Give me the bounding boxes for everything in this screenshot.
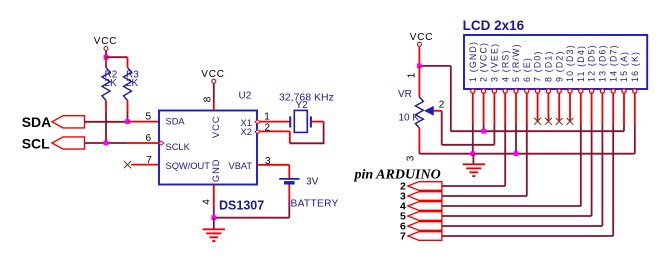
- wire wiper stub: [434, 110, 442, 112]
- wire wiper to pin3 (VEE): [442, 144, 495, 146]
- terminal ARDUINO pin 6 tag: [408, 222, 442, 231]
- terminal ARDUINO pin 7 tag: [408, 232, 442, 241]
- terminal ARDUINO pin 4 tag: [408, 202, 442, 211]
- node ground junction: [211, 215, 216, 220]
- svg-text:10 (D3): 10 (D3): [565, 44, 575, 82]
- svg-text:X2: X2: [241, 127, 252, 137]
- wire SDA to pin 5: [128, 121, 161, 123]
- no-connect X pin 9: [556, 118, 563, 125]
- svg-text:15 (A): 15 (A): [619, 51, 629, 82]
- wire to VR top: [418, 66, 420, 97]
- LCD pin 2 terminal: [482, 89, 486, 93]
- svg-text:9 (D2): 9 (D2): [554, 50, 564, 82]
- svg-text:SDA: SDA: [166, 117, 186, 127]
- LCD pin 7 terminal: [536, 89, 540, 93]
- wire X2 stub: [257, 130, 290, 132]
- wire VCC junction to rail: [419, 65, 450, 67]
- no-connect X on SQW/OUT: [124, 161, 131, 168]
- wire wiper down: [441, 111, 443, 145]
- node SDA/R3 junction: [125, 119, 130, 124]
- wire LCD pin 6 net: to tag 3: [526, 93, 528, 124]
- svg-text:1: 1: [407, 72, 418, 78]
- pin marker pin6: [159, 141, 164, 145]
- wire battery to ground node: [214, 217, 289, 219]
- wire GND distribution line: [419, 153, 634, 155]
- svg-text:SDA: SDA: [22, 114, 52, 130]
- wire pin 7 stub: [131, 164, 160, 166]
- wire LCD pin 3 net: to wiper line: [493, 93, 495, 124]
- wire LCD pin 10 stub (n/c): [569, 93, 571, 121]
- LCD pin 1 terminal: [471, 89, 475, 93]
- svg-text:10 K: 10 K: [399, 112, 420, 123]
- battery 3V: [288, 165, 290, 178]
- svg-text:1 (GND): 1 (GND): [468, 41, 478, 82]
- crystal left plate: [289, 116, 291, 127]
- svg-text:VR: VR: [398, 89, 412, 100]
- svg-text:SQW/OUT: SQW/OUT: [166, 161, 211, 171]
- LCD pin 5 terminal: [514, 89, 518, 93]
- svg-text:4: 4: [202, 199, 213, 205]
- wire pin 4 to ground: [213, 185, 215, 208]
- svg-text:3 (VEE): 3 (VEE): [490, 43, 500, 82]
- svg-text:1: 1: [264, 111, 270, 122]
- wire loop to X2: [289, 131, 291, 143]
- resistor R3: [127, 57, 129, 67]
- battery long plate: [279, 178, 299, 180]
- svg-text:Y2: Y2: [296, 100, 309, 111]
- svg-text:3: 3: [406, 155, 417, 161]
- resistor R2: [105, 57, 107, 68]
- IC U2 DS1307 body: [159, 111, 257, 185]
- svg-text:2K: 2K: [105, 78, 118, 89]
- svg-text:SCL: SCL: [22, 135, 50, 151]
- battery short plate: [284, 181, 295, 184]
- wire SCL to pin 6: [128, 142, 160, 144]
- wire LCD pin 4 net: to tag 2: [504, 93, 506, 124]
- svg-text:5 (R/W): 5 (R/W): [511, 43, 521, 82]
- svg-text:VCC: VCC: [201, 69, 225, 80]
- svg-text:2: 2: [439, 99, 445, 110]
- svg-text:SCLK: SCLK: [166, 142, 191, 152]
- wire VBAT to battery: [257, 164, 289, 166]
- svg-text:BATTERY: BATTERY: [291, 198, 339, 209]
- wire LCD pin 12 net: to tag 5: [591, 93, 593, 124]
- svg-text:LCD 2x16: LCD 2x16: [463, 18, 525, 33]
- ground (left): [203, 228, 225, 230]
- wire LCD pin 1 net: to GND line: [472, 93, 474, 124]
- LCD pin 12 terminal: [590, 89, 594, 93]
- no-connect X pin 8: [545, 118, 552, 125]
- LCD pin 8 terminal: [546, 89, 550, 93]
- LCD pin 11 terminal: [579, 89, 583, 93]
- no-connect X pin 7: [534, 118, 541, 125]
- wire tag 7 to LCD: [442, 235, 613, 237]
- node pin2/VCC junction: [481, 129, 486, 134]
- svg-text:U2: U2: [239, 91, 252, 102]
- terminal ARDUINO pin 2 tag: [408, 182, 442, 191]
- wire VCC distribution line: [451, 130, 624, 132]
- wire to ground symbol: [213, 218, 215, 230]
- svg-text:8: 8: [202, 96, 213, 102]
- wire LCD pin 9 stub (n/c): [558, 93, 560, 121]
- wire LCD pin 16 net: to GND line: [634, 93, 636, 124]
- wire VR bottom: [418, 128, 420, 152]
- svg-text:12 (D5): 12 (D5): [587, 44, 597, 82]
- svg-text:VCC: VCC: [94, 36, 118, 47]
- svg-text:16 (K): 16 (K): [630, 51, 640, 82]
- svg-text:13 (D6): 13 (D6): [598, 44, 608, 82]
- wire tag 2 to LCD: [442, 185, 505, 187]
- wire VCC to pin 8: [213, 84, 215, 103]
- wire LCD pin 14 net: to tag 7: [612, 93, 614, 124]
- svg-text:6: 6: [145, 133, 151, 144]
- LCD pin 4 terminal: [503, 89, 507, 93]
- wire tag 4 to LCD: [442, 205, 581, 207]
- svg-text:7 (D0): 7 (D0): [533, 50, 543, 82]
- svg-text:7: 7: [400, 231, 406, 243]
- svg-text:2K: 2K: [126, 78, 139, 89]
- wire LCD pin 13 net: to tag 6: [601, 93, 603, 124]
- svg-text:VCC: VCC: [410, 32, 434, 43]
- terminal ARDUINO pin 3 tag: [408, 192, 442, 201]
- terminal ARDUINO pin 5 tag: [408, 212, 442, 221]
- node pin1/GND junction: [470, 151, 475, 156]
- wire VCC terminal to junction: [105, 51, 107, 57]
- svg-text:4 (RS): 4 (RS): [500, 49, 510, 82]
- pin marker X2: [255, 130, 260, 134]
- svg-text:8 (D1): 8 (D1): [544, 50, 554, 82]
- LCD pin 14 terminal: [611, 89, 615, 93]
- svg-text:7: 7: [146, 155, 152, 166]
- svg-text:VCC: VCC: [211, 115, 221, 138]
- LCD pin 3 terminal: [492, 89, 496, 93]
- LCD pin 15 terminal: [622, 89, 626, 93]
- wire R3 bottom to SDA line: [127, 112, 129, 122]
- wire SCL net: [85, 142, 128, 144]
- node VCC junction: [104, 55, 109, 60]
- wire LCD pin 5 net: to GND line: [515, 93, 517, 124]
- wire battery down (red part): [288, 185, 290, 202]
- svg-text:5: 5: [145, 111, 151, 122]
- wire junction to R3 top: [106, 56, 128, 58]
- LCD pin 6 terminal: [525, 89, 529, 93]
- wire crystal right: [311, 121, 324, 123]
- wire X1 to crystal: [257, 121, 290, 123]
- no-connect X pin 10: [567, 118, 574, 125]
- wire tag 3 to LCD: [442, 195, 527, 197]
- node SCL/R2 junction: [104, 141, 109, 146]
- wire R2 bottom to SCL line: [105, 112, 107, 143]
- LCD pin 13 terminal: [600, 89, 604, 93]
- svg-text:3V: 3V: [306, 176, 319, 187]
- wire crystal loop: [290, 122, 324, 144]
- wire LCD pin 2 net: to VCC line: [483, 93, 485, 124]
- svg-text:11 (D4): 11 (D4): [576, 45, 586, 82]
- LCD module body: [464, 35, 647, 89]
- svg-text:VBAT: VBAT: [229, 161, 253, 171]
- svg-text:2 (VCC): 2 (VCC): [479, 42, 489, 82]
- LCD pin 16 terminal: [633, 89, 637, 93]
- wire LCD pin 11 net: to tag 4: [580, 93, 582, 124]
- ground (right): [463, 163, 485, 165]
- svg-text:DS1307: DS1307: [219, 198, 264, 212]
- pin marker X1: [255, 120, 260, 124]
- node VR VCC junction: [417, 64, 422, 69]
- wire LCD pin 7 stub (n/c): [537, 93, 539, 121]
- LCD pin 9 terminal: [557, 89, 561, 93]
- wire LCD pin 8 stub (n/c): [547, 93, 549, 121]
- wire battery down (dark part): [288, 201, 290, 218]
- crystal right plate: [310, 116, 312, 127]
- svg-text:6 (E): 6 (E): [522, 57, 532, 82]
- wire tag 6 to LCD: [442, 225, 603, 227]
- svg-text:pin ARDUINO: pin ARDUINO: [354, 167, 441, 182]
- svg-text:14 (D7): 14 (D7): [608, 44, 618, 82]
- svg-text:GND: GND: [211, 158, 221, 182]
- wire tag 5 to LCD: [442, 215, 592, 217]
- wire to ground symbol (right): [472, 154, 474, 165]
- wire LCD pin 15 net: to VCC line: [623, 93, 625, 124]
- wire VCC rail vertical: [450, 66, 452, 131]
- node pin5/GND junction: [514, 151, 519, 156]
- wire SDA net: [85, 121, 128, 123]
- LCD pin 10 terminal: [568, 89, 572, 93]
- wire VCC to junction: [418, 47, 420, 66]
